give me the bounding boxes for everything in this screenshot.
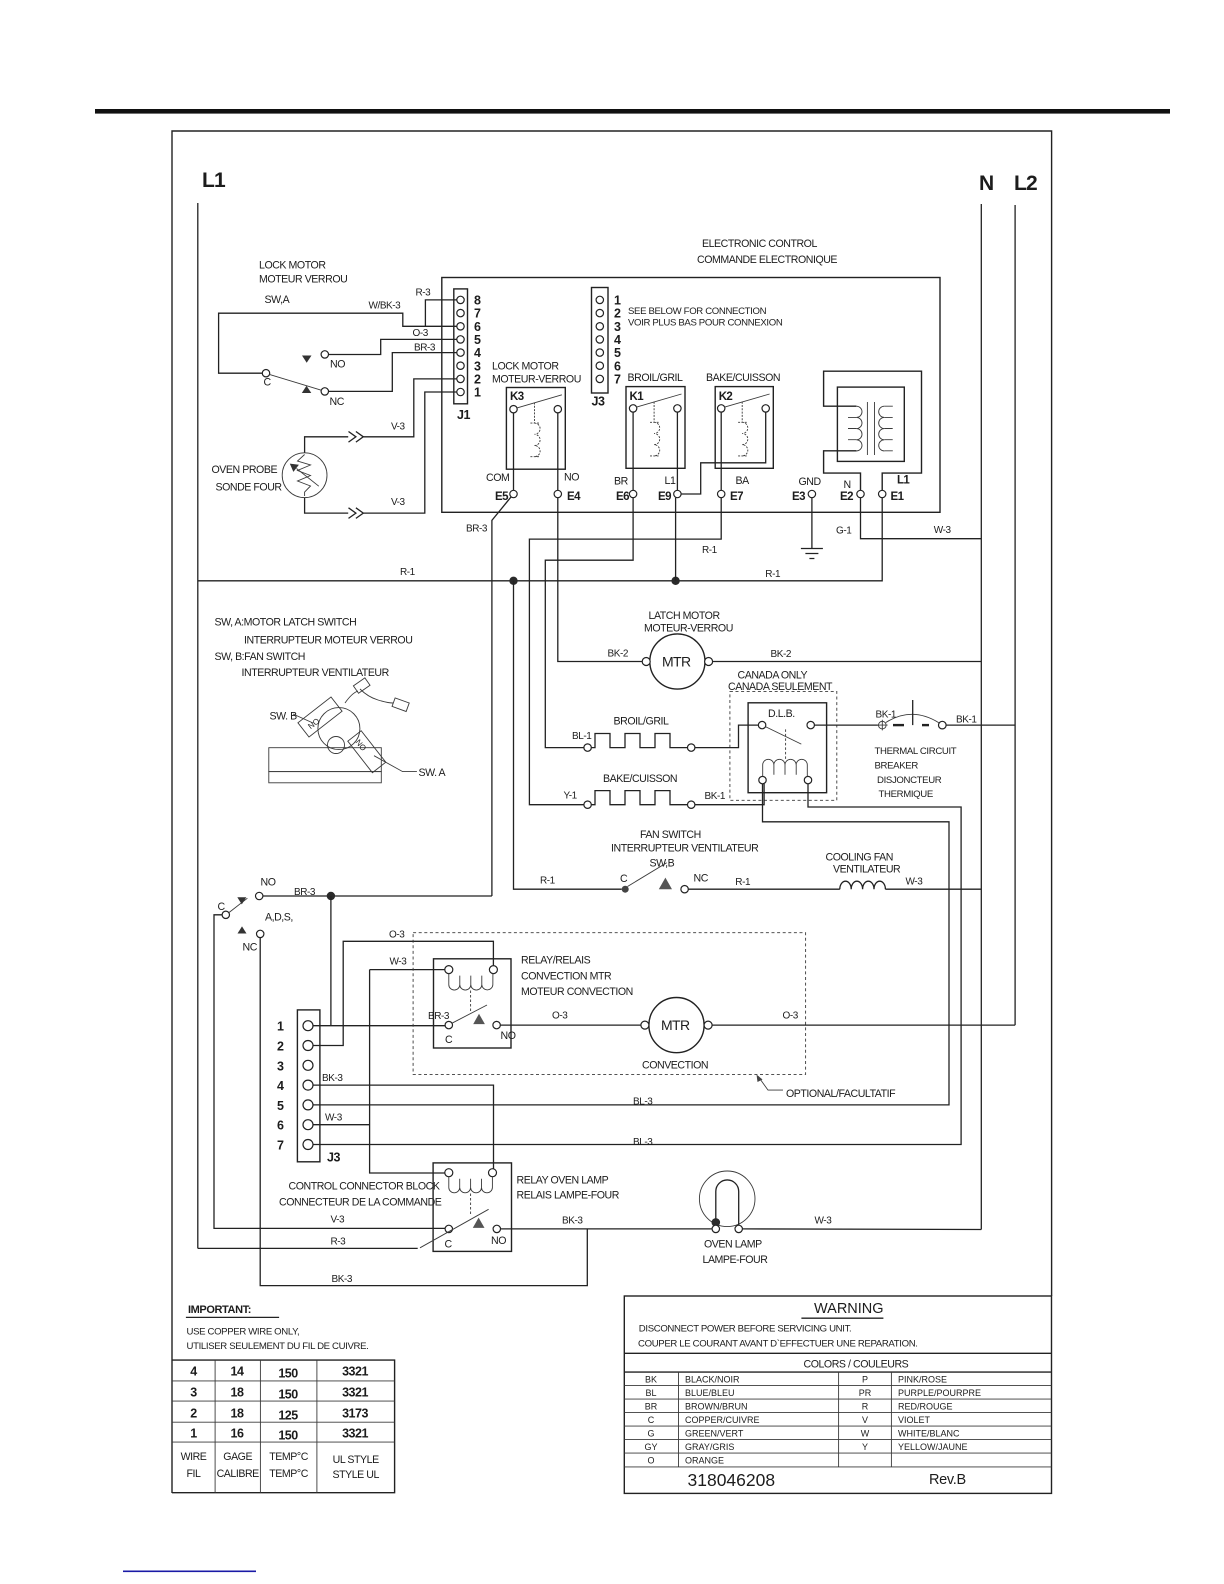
svg-text:R: R [862,1402,869,1412]
relay K3 [492,361,581,470]
svg-text:TEMP°C: TEMP°C [269,1468,308,1480]
svg-text:150: 150 [278,1367,298,1381]
svg-text:16: 16 [231,1427,244,1441]
svg-text:COUPER LE COURANT AVANT D`EFFE: COUPER LE COURANT AVANT D`EFFECTUER UNE … [638,1339,918,1350]
svg-text:V-3: V-3 [331,1215,346,1226]
cooling fan coil [826,852,902,890]
junction dot ADS NO branch [327,892,335,900]
svg-text:WARNING: WARNING [814,1301,884,1317]
svg-text:6: 6 [474,320,481,334]
latch motor MTR [642,610,733,689]
svg-text:E1: E1 [891,491,905,503]
terminal E6 [614,412,637,503]
svg-text:O-3: O-3 [389,930,405,941]
svg-text:SW. B: SW. B [270,711,298,723]
svg-text:NO: NO [564,472,579,484]
svg-text:1: 1 [277,1020,284,1034]
svg-text:BROIL/GRIL: BROIL/GRIL [628,372,684,384]
connector chevrons top [349,432,364,443]
svg-text:WHITE/BLANC: WHITE/BLANC [898,1429,960,1439]
svg-text:O-3: O-3 [552,1011,568,1022]
relay K2 [706,372,780,468]
svg-text:THERMIQUE: THERMIQUE [879,789,933,800]
svg-text:MOTEUR VERROU: MOTEUR VERROU [259,274,347,286]
svg-text:O-3: O-3 [413,328,429,339]
svg-text:INTERRUPTEUR VENTILATEUR: INTERRUPTEUR VENTILATEUR [611,843,759,855]
svg-text:J1: J1 [457,408,470,422]
thermal circuit breaker [814,700,1015,800]
svg-text:3: 3 [474,359,481,373]
svg-text:1: 1 [474,386,481,400]
svg-text:W-3: W-3 [390,957,408,968]
svg-text:5: 5 [277,1099,284,1113]
oven lamp [699,1171,768,1266]
wire BK-3 ADS NC down [260,938,587,1286]
svg-text:E3: E3 [792,491,805,503]
svg-text:BREAKER: BREAKER [875,761,919,772]
svg-text:V: V [862,1415,868,1425]
svg-text:COPPER/CUIVRE: COPPER/CUIVRE [685,1415,760,1425]
svg-text:SONDE FOUR: SONDE FOUR [216,481,283,493]
bake element [564,773,695,808]
svg-text:BROIL/GRIL: BROIL/GRIL [614,716,670,728]
svg-text:7: 7 [277,1139,284,1153]
junction dot R1/E5 branch [509,577,517,585]
svg-text:W-3: W-3 [906,877,924,888]
wire R-3 L1 rail to lamp relay arm [198,1247,418,1249]
svg-text:CALIBRE: CALIBRE [217,1468,260,1480]
svg-text:CONTROL CONNECTOR BLOCK: CONTROL CONNECTOR BLOCK [289,1181,440,1193]
junction dot E9 on R-1 bus [671,577,679,585]
svg-text:BK-3: BK-3 [332,1274,353,1285]
svg-text:OVEN PROBE: OVEN PROBE [212,464,278,476]
svg-text:K1: K1 [630,391,645,403]
svg-text:4: 4 [277,1079,284,1093]
svg-text:BK-3: BK-3 [562,1216,583,1227]
svg-text:GRAY/GRIS: GRAY/GRIS [685,1442,734,1452]
wire R-1 fan NC to cooling fan [688,888,840,890]
svg-text:V-3: V-3 [391,497,406,508]
terminal E4 [554,413,581,503]
svg-text:4: 4 [614,333,621,347]
svg-text:R-3: R-3 [331,1237,347,1248]
wire BL-3 DLB bottom-right down to J3 pin7 [313,784,961,1145]
svg-text:IMPORTANT:: IMPORTANT: [188,1304,251,1316]
svg-text:18: 18 [231,1386,244,1400]
svg-text:G: G [647,1429,654,1439]
svg-text:C: C [445,1034,453,1046]
svg-text:318046208: 318046208 [688,1470,776,1490]
svg-text:W-3: W-3 [815,1216,833,1227]
svg-text:PURPLE/POURPRE: PURPLE/POURPRE [898,1388,981,1398]
svg-text:BA: BA [736,475,751,487]
svg-text:GAGE: GAGE [223,1451,252,1463]
transformer T1 [824,371,922,490]
svg-text:L1: L1 [202,169,226,192]
svg-text:125: 125 [278,1409,298,1423]
svg-text:J3: J3 [592,395,605,409]
svg-text:14: 14 [231,1365,244,1379]
svg-text:CANADA ONLY: CANADA ONLY [738,670,808,682]
svg-text:R-1: R-1 [735,877,751,888]
svg-text:BK-1: BK-1 [876,710,897,721]
svg-text:3321: 3321 [342,1427,368,1441]
svg-text:MOTEUR-VERROU: MOTEUR-VERROU [644,623,733,635]
svg-text:BLACK/NOIR: BLACK/NOIR [685,1375,740,1385]
svg-text:BR-3: BR-3 [414,343,436,354]
wire L1 rail [197,203,199,1248]
svg-text:2: 2 [474,373,481,387]
svg-text:BK-1: BK-1 [705,791,726,802]
fan switch SW.B [540,829,759,893]
wire G-1 E3 to ground [811,498,813,549]
svg-text:MOTEUR-VERROU: MOTEUR-VERROU [492,374,581,386]
svg-text:2: 2 [614,307,621,321]
svg-text:WIRE: WIRE [181,1451,207,1463]
terminal E3 [792,476,821,503]
mechanical inset latch assembly [215,617,447,783]
svg-text:3173: 3173 [342,1407,368,1421]
svg-text:RED/ROUGE: RED/ROUGE [898,1402,953,1412]
svg-text:TEMP°C: TEMP°C [269,1451,308,1463]
svg-text:L2: L2 [1014,172,1037,195]
svg-text:D.L.B.: D.L.B. [768,708,795,720]
svg-text:W/BK-3: W/BK-3 [369,301,402,312]
wire BL-3 DLB bottom-left down to J3 pin5 [313,784,949,1105]
svg-text:GND: GND [799,476,822,488]
switch A.D.S. [218,877,293,954]
svg-text:CONVECTION: CONVECTION [642,1060,708,1072]
svg-text:150: 150 [278,1388,298,1402]
svg-text:4: 4 [474,346,481,360]
svg-text:BK-1: BK-1 [956,715,977,726]
svg-text:G-1: G-1 [836,526,852,537]
svg-text:PINK/ROSE: PINK/ROSE [898,1375,947,1385]
svg-text:C: C [445,1239,453,1251]
svg-text:3: 3 [277,1059,284,1073]
svg-text:SW, B:FAN SWITCH: SW, B:FAN SWITCH [215,651,306,663]
svg-text:BR-3: BR-3 [428,1011,450,1022]
svg-text:BR: BR [645,1402,658,1412]
svg-text:CONNECTEUR DE LA COMMANDE: CONNECTEUR DE LA COMMANDE [279,1197,442,1209]
svg-text:7: 7 [614,373,621,387]
svg-text:THERMAL CIRCUIT: THERMAL CIRCUIT [875,746,957,757]
svg-text:C: C [648,1415,655,1425]
svg-text:DISCONNECT POWER BEFORE SERVIC: DISCONNECT POWER BEFORE SERVICING UNIT. [639,1324,852,1335]
svg-text:DISJONCTEUR: DISJONCTEUR [877,775,942,786]
svg-text:N: N [844,479,851,491]
svg-text:SW. A: SW. A [419,767,447,779]
svg-text:3: 3 [190,1386,197,1400]
svg-text:MTR: MTR [661,1017,690,1033]
svg-text:4: 4 [190,1365,197,1379]
svg-text:W-3: W-3 [934,525,952,536]
svg-text:Y: Y [862,1442,868,1452]
svg-text:Rev.B: Rev.B [929,1472,966,1488]
svg-text:NC: NC [330,396,345,408]
svg-text:LOCK MOTOR: LOCK MOTOR [259,260,326,272]
svg-text:YELLOW/JAUNE: YELLOW/JAUNE [898,1442,968,1452]
svg-text:K2: K2 [719,391,733,403]
svg-text:W: W [861,1429,870,1439]
svg-text:VENTILATEUR: VENTILATEUR [833,864,901,876]
svg-text:NO: NO [501,1030,516,1042]
svg-text:VOIR PLUS BAS POUR CONNEXION: VOIR PLUS BAS POUR CONNEXION [628,318,783,329]
wire BR-3 down to J3 pin1 wire [330,896,332,1026]
svg-text:LAMPE-FOUR: LAMPE-FOUR [703,1254,769,1266]
wire N rail [980,204,982,1230]
svg-text:E2: E2 [840,491,853,503]
svg-text:SW, A:MOTOR LATCH SWITCH: SW, A:MOTOR LATCH SWITCH [215,617,357,629]
svg-text:MTR: MTR [662,654,691,670]
svg-text:UL STYLE: UL STYLE [333,1454,379,1466]
wire BR-3 J3 pin1 to convection relay C [313,1025,445,1027]
svg-text:COLORS / COULEURS: COLORS / COULEURS [804,1359,909,1371]
svg-text:J3: J3 [327,1151,340,1165]
svg-text:ORANGE: ORANGE [685,1456,724,1466]
svg-text:NC: NC [243,942,258,954]
svg-text:MOTEUR CONVECTION: MOTEUR CONVECTION [521,986,633,998]
svg-text:O: O [647,1456,654,1466]
svg-text:BK-3: BK-3 [322,1073,343,1084]
svg-text:R-1: R-1 [765,569,781,580]
svg-text:GREEN/VERT: GREEN/VERT [685,1429,744,1439]
svg-text:USE COPPER WIRE ONLY,: USE COPPER WIRE ONLY, [187,1327,300,1338]
svg-text:BL-3: BL-3 [633,1097,653,1108]
svg-text:SW,A: SW,A [265,294,291,306]
terminal E5 [486,413,517,503]
svg-text:STYLE UL: STYLE UL [332,1469,379,1481]
svg-text:BLUE/BLEU: BLUE/BLEU [685,1388,735,1398]
svg-text:R-3: R-3 [416,288,432,299]
svg-text:L1: L1 [897,475,910,487]
svg-text:BL-1: BL-1 [572,731,592,742]
svg-text:2: 2 [190,1407,197,1421]
svg-text:PR: PR [859,1388,872,1398]
terminal E9 [658,412,681,503]
svg-text:INTERRUPTEUR MOTEUR VERROU: INTERRUPTEUR MOTEUR VERROU [244,635,412,647]
svg-text:RELAIS LAMPE-FOUR: RELAIS LAMPE-FOUR [517,1190,620,1202]
svg-text:1: 1 [614,294,621,308]
connector J3 upper [592,288,622,409]
top rule [95,109,1170,114]
wire L2 rail [1014,205,1016,1025]
svg-text:V-3: V-3 [391,422,406,433]
control connector block J3 [277,1010,442,1209]
svg-text:COM: COM [486,472,509,484]
terminal E7 [718,412,751,503]
svg-text:NO: NO [491,1235,506,1247]
svg-text:OVEN LAMP: OVEN LAMP [704,1239,762,1251]
svg-text:N: N [979,172,993,195]
wire E9 down to bus [675,498,677,581]
svg-text:3321: 3321 [342,1365,368,1379]
relay oven lamp [420,1163,620,1252]
svg-text:6: 6 [277,1119,284,1133]
svg-text:C: C [620,873,628,885]
svg-text:18: 18 [231,1407,244,1421]
D.L.B. relay [748,703,827,793]
connector chevrons bottom [349,508,364,519]
svg-text:LOCK MOTOR: LOCK MOTOR [492,361,559,373]
terminal E1 [879,475,911,504]
svg-text:150: 150 [278,1429,298,1443]
svg-text:BAKE/CUISSON: BAKE/CUISSON [603,773,677,785]
warning box [624,1296,1051,1493]
wire K2 NO to E9 [681,412,766,494]
svg-text:RELAY OVEN LAMP: RELAY OVEN LAMP [517,1175,609,1187]
convection motor MTR [641,998,712,1072]
svg-text:OPTIONAL/FACULTATIF: OPTIONAL/FACULTATIF [786,1088,896,1100]
svg-text:P: P [862,1375,868,1385]
broil element [572,716,695,752]
svg-text:BL-3: BL-3 [633,1137,653,1148]
wire R-1 bus to fan switch C [514,581,622,889]
svg-text:SEE BELOW FOR CONNECTION: SEE BELOW FOR CONNECTION [628,306,767,317]
svg-text:LATCH MOTOR: LATCH MOTOR [649,610,721,622]
convection relay [428,955,633,1049]
optional leader [758,1076,783,1090]
svg-text:E4: E4 [567,491,581,503]
svg-text:Y-1: Y-1 [564,791,578,802]
svg-text:5: 5 [614,346,621,360]
svg-text:VIOLET: VIOLET [898,1415,931,1425]
svg-text:NO: NO [330,359,345,371]
svg-text:R-1: R-1 [540,876,556,887]
svg-text:INTERRUPTEUR VENTILATEUR: INTERRUPTEUR VENTILATEUR [242,667,390,679]
svg-text:BL: BL [645,1388,656,1398]
svg-text:BROWN/BRUN: BROWN/BRUN [685,1402,748,1412]
svg-text:A,D,S,: A,D,S, [265,912,293,924]
oven probe RT1 [212,453,328,498]
svg-text:BR-3: BR-3 [466,524,488,535]
svg-text:RELAY/RELAIS: RELAY/RELAIS [521,955,591,967]
svg-text:3: 3 [614,320,621,334]
wire gauge table [172,1360,395,1493]
svg-text:E9: E9 [658,491,671,503]
svg-text:R-1: R-1 [702,545,718,556]
svg-text:R-1: R-1 [400,567,416,578]
svg-text:C: C [264,376,272,388]
svg-text:UTILISER SEULEMENT DU FIL DE C: UTILISER SEULEMENT DU FIL DE CUIVRE. [187,1341,369,1352]
svg-text:BK-2: BK-2 [608,649,629,660]
svg-text:ELECTRONIC CONTROL: ELECTRONIC CONTROL [702,238,817,250]
connector J1 [454,289,481,422]
svg-text:5: 5 [474,333,481,347]
svg-text:NC: NC [694,873,709,885]
bottom blue mark [123,1571,256,1573]
wire BL-1 broil to DLB top-left [695,725,759,748]
svg-text:BR: BR [614,476,629,488]
important note [186,1304,369,1352]
wire V-3 ADS C down [214,915,445,1229]
svg-text:7: 7 [474,307,481,321]
svg-text:K3: K3 [510,391,524,403]
svg-text:1: 1 [190,1427,197,1441]
frame border [172,131,1052,1493]
optional dashed box [413,933,805,1075]
svg-text:E7: E7 [730,491,743,503]
svg-text:FIL: FIL [187,1468,202,1480]
svg-text:SW,B: SW,B [650,858,675,870]
svg-text:3321: 3321 [342,1386,368,1400]
svg-text:L1: L1 [665,475,676,487]
svg-text:2: 2 [277,1040,284,1054]
svg-text:W-3: W-3 [325,1113,343,1124]
svg-text:8: 8 [474,294,481,308]
relay K1 [626,372,685,468]
ground symbol [801,549,823,559]
svg-text:E6: E6 [616,491,629,503]
svg-text:NO: NO [261,877,276,889]
svg-text:BK-2: BK-2 [771,649,792,660]
svg-text:GY: GY [644,1442,657,1452]
svg-text:FAN SWITCH: FAN SWITCH [640,829,701,841]
svg-text:COMMANDE ELECTRONIQUE: COMMANDE ELECTRONIQUE [697,254,837,266]
svg-text:O-3: O-3 [783,1011,799,1022]
svg-text:BAKE/CUISSON: BAKE/CUISSON [706,372,780,384]
wire E6 to broil element [545,498,633,748]
svg-text:BK: BK [645,1375,657,1385]
svg-text:6: 6 [614,359,621,373]
svg-text:COOLING FAN: COOLING FAN [826,852,893,864]
terminal E2 [840,479,864,503]
svg-text:CONVECTION MTR: CONVECTION MTR [521,971,612,983]
switch SW.A [262,351,345,409]
